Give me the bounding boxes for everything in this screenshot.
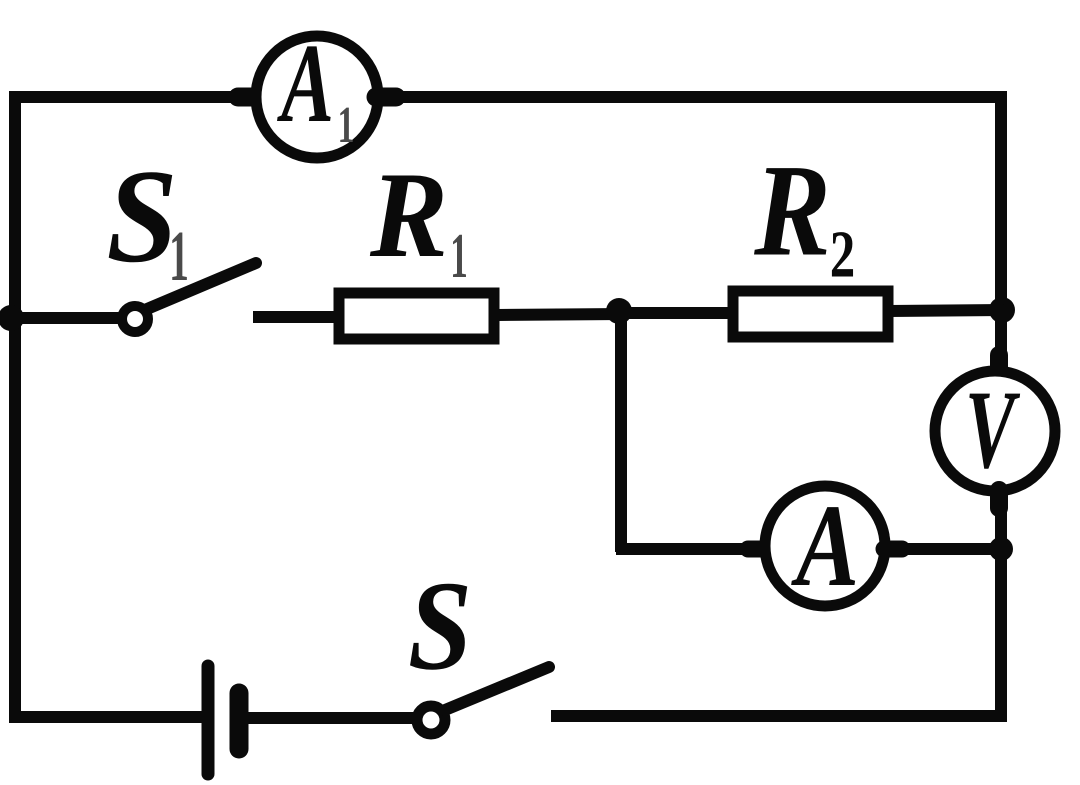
ammeter A <box>765 486 885 606</box>
wire: left vertical side of loop <box>9 91 21 722</box>
wire: branch vertical from center node down <box>615 311 627 552</box>
node: left middle junction on left side wire <box>0 305 24 331</box>
wire: top side, right of ammeter A1 <box>376 88 1006 107</box>
ammeter A1 <box>256 36 378 158</box>
voltmeter V <box>935 371 1055 491</box>
node: center junction below R1/R2 (branch to ammeter A) <box>606 298 632 324</box>
label S1 <box>109 172 187 280</box>
label R2 <box>754 168 853 276</box>
wire: top side, left of ammeter A1 <box>9 91 258 103</box>
node: right lower junction (ammeter A branch / voltmeter bottom) <box>989 537 1013 561</box>
wire: middle row, center node to resistor R2 <box>616 307 734 319</box>
wire: bottom side, left of battery <box>9 711 203 723</box>
switch S pivot contact <box>417 706 445 734</box>
wire: middle row, resistor R1 to center node <box>497 314 624 315</box>
wire: bottom side, battery to switch S pivot <box>246 712 414 724</box>
wire: right vertical side, voltmeter V to bottom-right corner <box>999 490 1001 722</box>
wire: middle row, switch S1 to resistor R1 <box>253 311 340 323</box>
wire: right vertical side, top segment down to voltmeter V <box>999 91 1001 373</box>
wire: branch horizontal, to ammeter A <box>616 543 766 555</box>
wire: middle row, left side to switch S1 pivot <box>9 312 122 324</box>
switch S1 blade (open) <box>147 263 256 309</box>
battery cell: long plate (positive) <box>202 666 215 774</box>
resistor R2 <box>733 291 888 337</box>
resistor R1 <box>339 293 494 339</box>
battery cell: short thick plate (negative) <box>230 693 249 749</box>
wire: middle row, resistor R2 to right node <box>886 310 1004 311</box>
label S <box>410 584 467 670</box>
label R1 <box>370 175 466 277</box>
switch S1 pivot contact <box>122 306 148 332</box>
switch S blade (open) <box>445 667 549 710</box>
wire: bottom side, switch S to bottom-right corner <box>551 710 1005 722</box>
wire: branch horizontal, ammeter A to right lower node <box>884 541 1004 558</box>
node: right middle junction (R2 / voltmeter branch) <box>989 297 1015 323</box>
